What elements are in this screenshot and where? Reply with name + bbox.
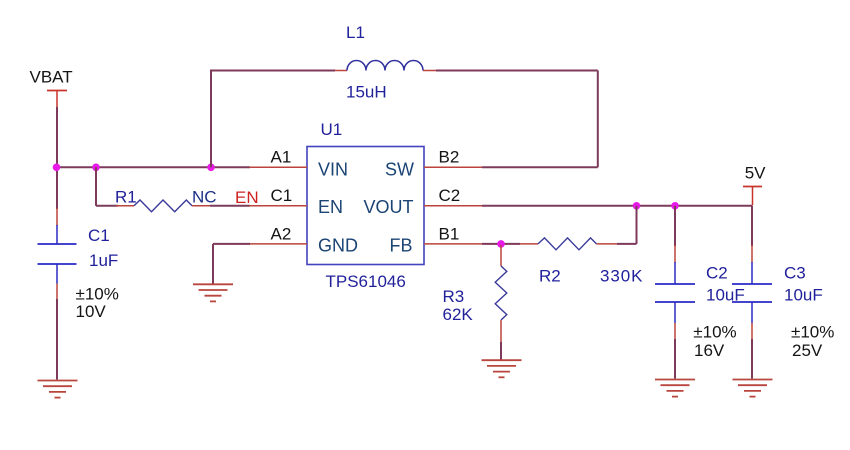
wire VBAT vertical (56, 107, 58, 209)
svg-text:VIN: VIN (318, 160, 348, 180)
svg-text:15uH: 15uH (346, 83, 387, 102)
svg-text:C1: C1 (271, 186, 293, 205)
wire R1 to EN pin (210, 205, 250, 207)
wire R2 to corner (617, 243, 637, 245)
capacitor C3 (732, 262, 772, 323)
wire GND pin to ground (213, 243, 250, 245)
power symbol VBAT (47, 91, 67, 108)
pin 1 of L1 (335, 70, 347, 72)
pin 2 of C1 (56, 284, 58, 301)
wire L1 branch up (210, 71, 212, 168)
pin 2 of R2 (597, 243, 618, 245)
node junction L1 branch (207, 164, 215, 172)
svg-text:1uF: 1uF (89, 251, 118, 270)
node junction C2 branch (671, 202, 679, 210)
wire main horizontal VIN net (56, 166, 250, 168)
svg-text:C3: C3 (784, 263, 806, 282)
wire top to inductor (210, 70, 335, 72)
svg-text:C2: C2 (439, 186, 461, 205)
wire 5V to C3 (751, 206, 753, 246)
capacitor C1 (38, 225, 77, 284)
wire R2 branch vertical (636, 206, 638, 244)
svg-text:10V: 10V (76, 302, 107, 321)
svg-text:R3: R3 (443, 287, 465, 306)
wire R3 to ground (500, 342, 502, 360)
pin 1 of C1 (56, 208, 58, 226)
svg-text:±10%: ±10% (791, 322, 834, 341)
resistor R2 (538, 238, 597, 250)
pin 1 of R1 (116, 205, 134, 207)
wire C1 to ground (56, 299, 58, 380)
capacitor C2 (655, 262, 695, 323)
svg-text:5V: 5V (745, 164, 766, 183)
pin B2 SW (424, 166, 482, 168)
svg-text:62K: 62K (443, 305, 474, 324)
svg-text:VOUT: VOUT (364, 197, 414, 217)
svg-text:NC: NC (192, 187, 217, 206)
wire R1 branch horizontal (96, 205, 118, 207)
wire C2 branch (674, 206, 676, 246)
wire SW horizontal to pin B2 (482, 166, 598, 168)
svg-text:A2: A2 (271, 225, 292, 244)
node junction R3 (497, 240, 505, 248)
svg-text:R2: R2 (539, 267, 561, 286)
pin B1 FB (424, 243, 482, 245)
wire SW vertical (597, 71, 599, 168)
svg-text:C2: C2 (706, 263, 728, 282)
svg-text:FB: FB (390, 235, 413, 255)
svg-text:±10%: ±10% (693, 322, 736, 341)
svg-text:B2: B2 (439, 148, 460, 167)
pin 2 of R1 (192, 205, 210, 207)
svg-text:GND: GND (318, 235, 358, 255)
svg-text:C1: C1 (88, 226, 110, 245)
svg-text:R1: R1 (115, 187, 137, 206)
resistor R3 (495, 266, 507, 320)
node junction VBAT (53, 164, 61, 172)
svg-text:25V: 25V (792, 341, 823, 360)
svg-text:330K: 330K (600, 267, 643, 286)
svg-text:U1: U1 (321, 120, 343, 139)
pin 2 of R3 (500, 320, 502, 342)
ground C1 (38, 381, 78, 398)
node junction R2 branch (633, 202, 641, 210)
svg-text:A1: A1 (271, 148, 292, 167)
svg-text:10uF: 10uF (784, 286, 823, 305)
wire C2 to ground (674, 339, 676, 379)
svg-text:±10%: ±10% (76, 285, 119, 304)
pin 2 of C3 (751, 323, 753, 340)
wire C3 to ground (751, 339, 753, 379)
pin A1 VIN (249, 166, 307, 168)
svg-text:EN: EN (318, 197, 343, 217)
pin 1 of C3 (751, 245, 753, 263)
svg-text:16V: 16V (694, 341, 725, 360)
op-amp U1 body (307, 147, 424, 265)
svg-text:EN: EN (235, 188, 259, 207)
svg-text:SW: SW (385, 160, 414, 180)
node junction R1 branch (92, 164, 100, 172)
svg-text:B1: B1 (439, 225, 460, 244)
wire GND vertical (212, 244, 214, 284)
pin 1 of R3 (500, 245, 502, 266)
power symbol 5V (743, 187, 762, 206)
svg-text:L1: L1 (346, 23, 365, 42)
pin 2 of L1 (423, 70, 436, 72)
pin 1 of R2 (520, 243, 538, 245)
pin A2 GND (249, 243, 307, 245)
inductor L1 (347, 61, 423, 71)
pin C1 EN (249, 205, 307, 207)
wire inductor to SW corner (436, 70, 598, 72)
pin 2 of C2 (674, 323, 676, 340)
ground R3 (482, 360, 522, 377)
pin 1 of C2 (674, 245, 676, 263)
wire R1 branch down (95, 167, 97, 206)
resistor R1 (134, 200, 192, 212)
svg-text:VBAT: VBAT (30, 68, 73, 87)
wire FB net (482, 243, 520, 245)
wire VOUT net (482, 205, 753, 207)
ground C3 (733, 380, 773, 397)
pin C2 VOUT (424, 205, 482, 207)
ground C2 (655, 380, 695, 397)
ground U1 (193, 284, 233, 301)
svg-text:TPS61046: TPS61046 (326, 272, 406, 291)
